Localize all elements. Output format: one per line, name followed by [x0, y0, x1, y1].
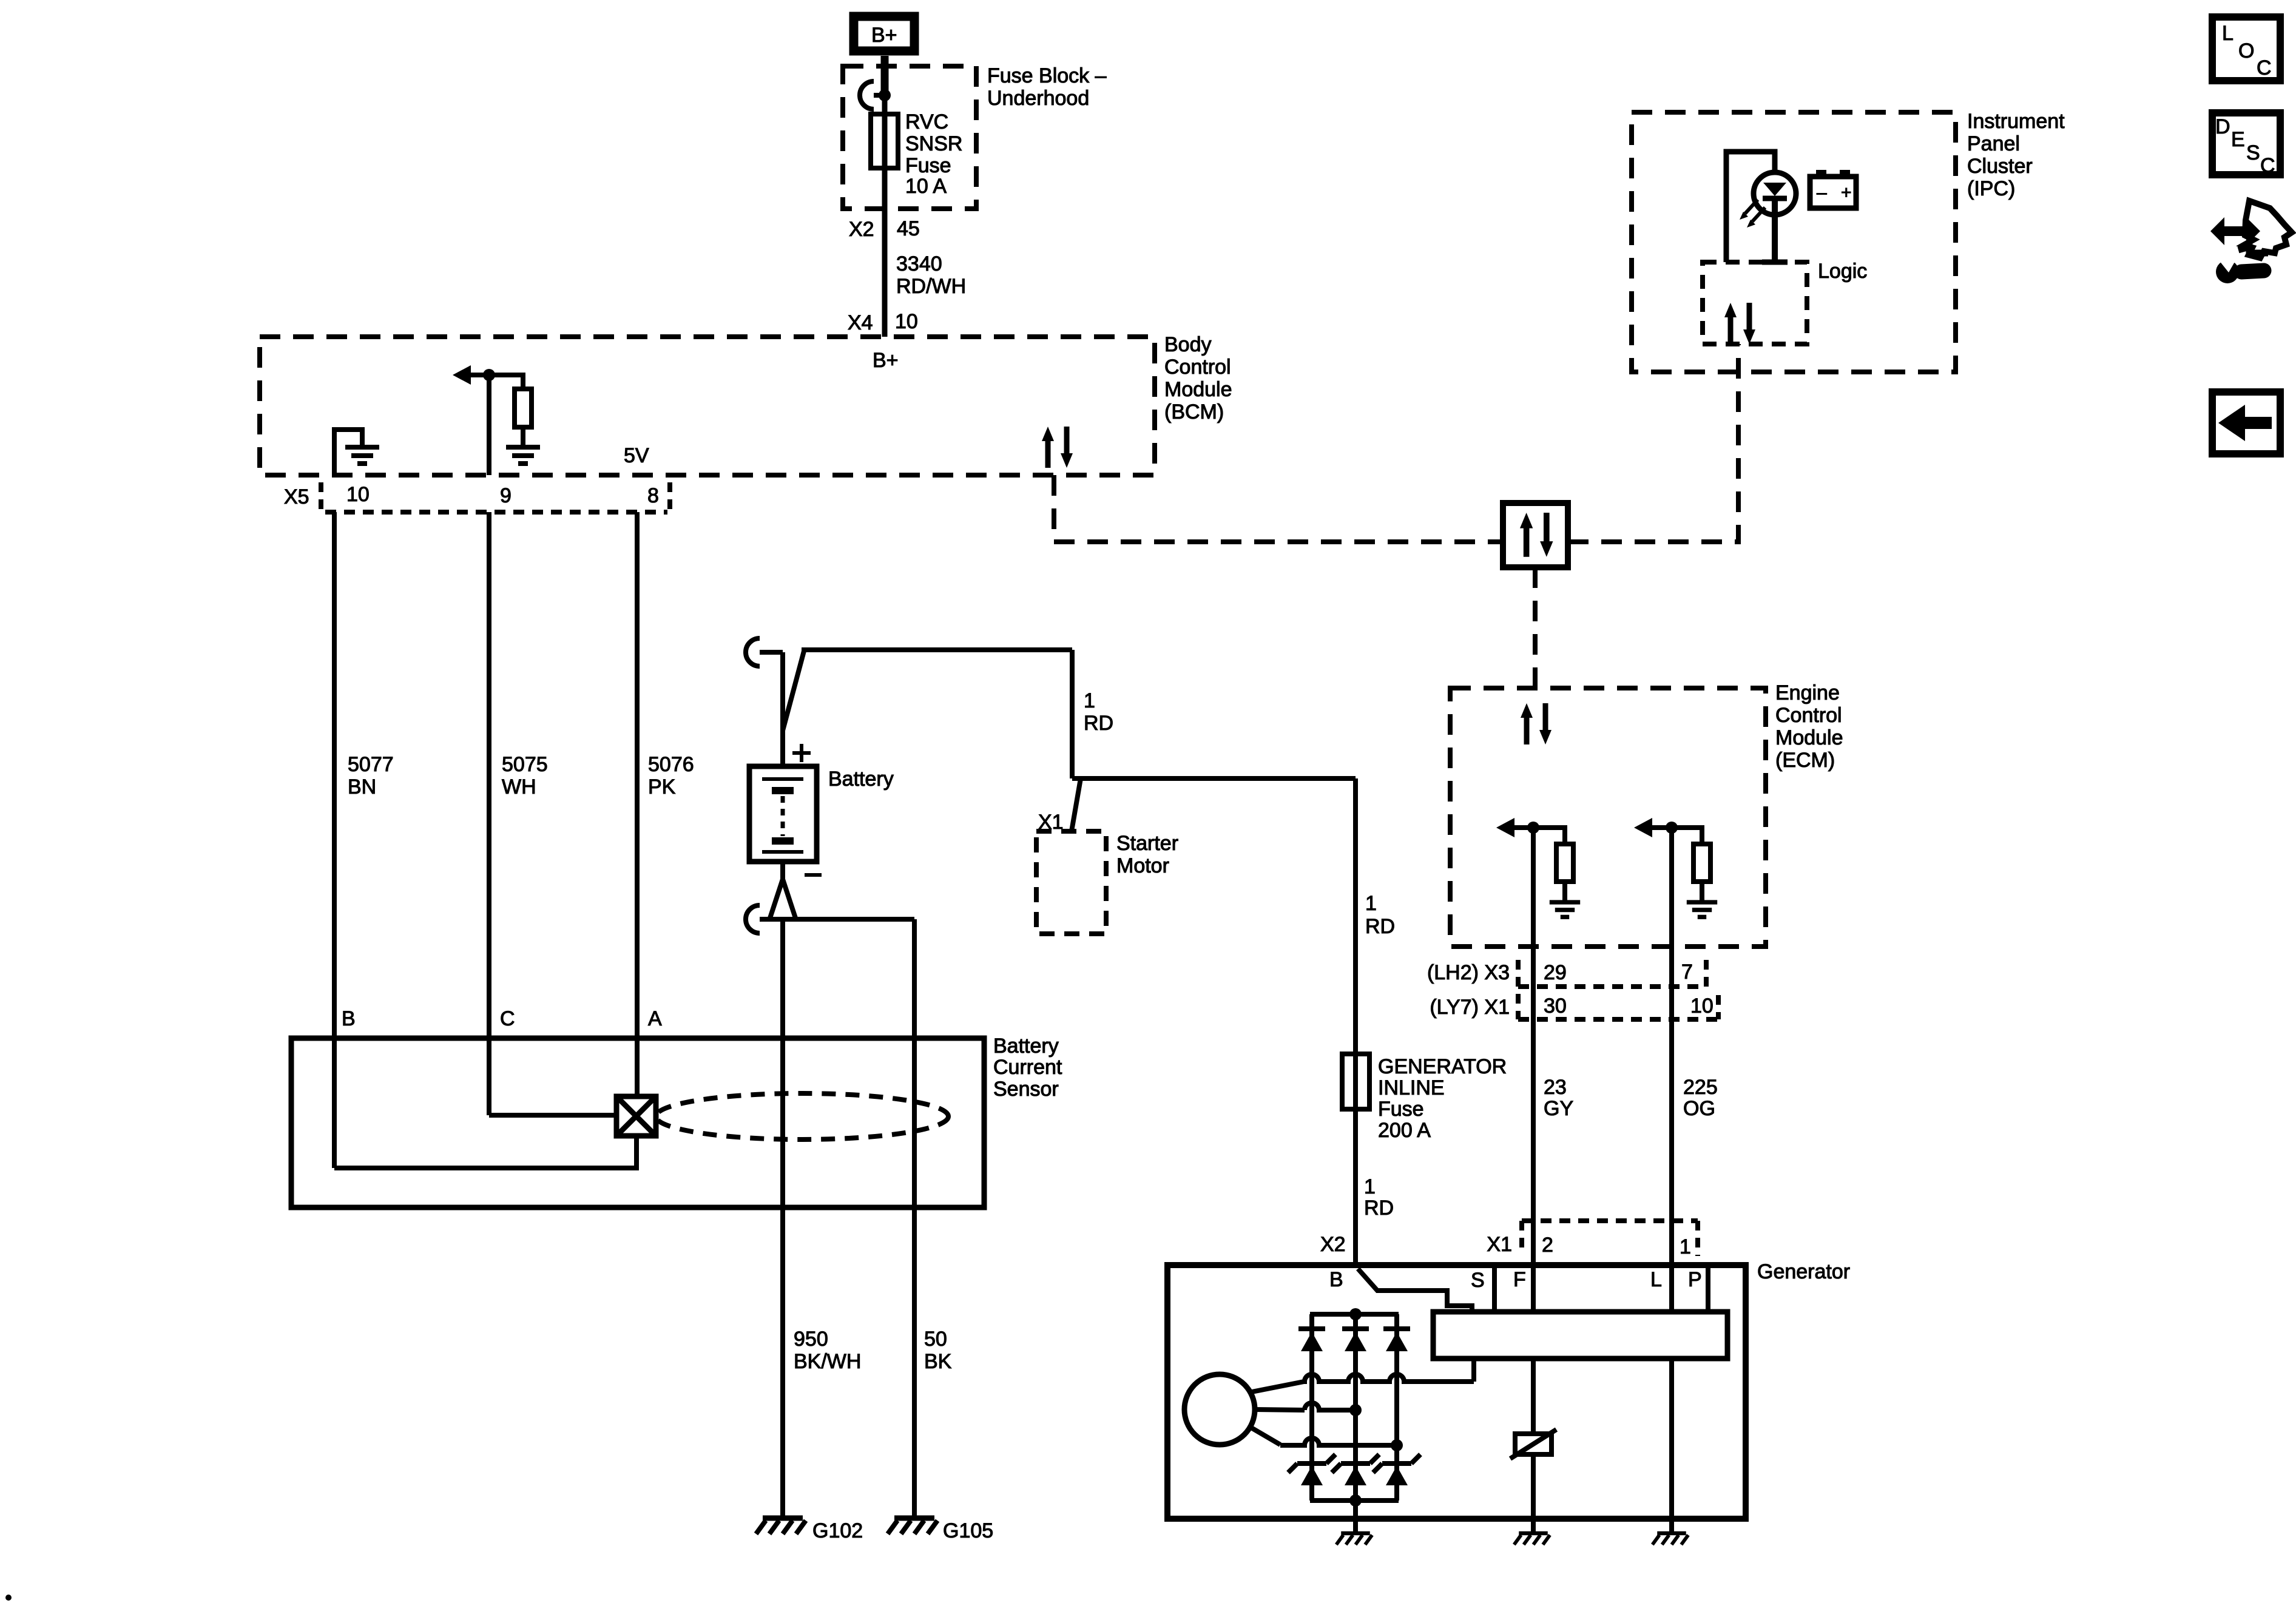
ECM serial arrows: [1521, 703, 1551, 744]
wire 23 GY to generator F: [1531, 828, 1536, 1314]
svg-text:SNSR: SNSR: [905, 132, 962, 155]
wire 50 BK to G105: [912, 919, 917, 1517]
svg-text:RD: RD: [1084, 712, 1113, 735]
diode 1: [1298, 1329, 1325, 1351]
splice continuation hook: [874, 93, 885, 98]
svg-text:RD: RD: [1364, 1197, 1394, 1220]
svg-text:8: 8: [647, 484, 659, 507]
svg-text:X5: X5: [284, 485, 309, 508]
stray period artifact: [5, 1595, 12, 1601]
svg-text:RD: RD: [1365, 915, 1395, 938]
regulator sense step: [1471, 1359, 1476, 1382]
svg-text:Module: Module: [1775, 726, 1843, 749]
svg-text:2: 2: [1542, 1234, 1553, 1257]
ground ECM left: [1550, 902, 1580, 917]
zener diode 2: [1332, 1454, 1379, 1485]
svg-text:O: O: [2238, 39, 2254, 62]
LOC icon: [2212, 17, 2280, 81]
generator case ground B: [1353, 1501, 1358, 1531]
svg-text:RVC: RVC: [905, 110, 948, 133]
generator box: [1167, 1265, 1746, 1519]
fuse block underhood dashed box: [843, 66, 976, 209]
svg-text:GY: GY: [1544, 1097, 1573, 1120]
svg-text:1: 1: [1365, 892, 1377, 915]
svg-text:D: D: [2215, 115, 2230, 138]
svg-text:S: S: [2246, 141, 2260, 164]
svg-text:BN: BN: [348, 775, 376, 798]
node stator phase 2 junction: [1349, 1404, 1362, 1416]
ground (BCM pin 10): [345, 447, 379, 464]
svg-text:G105: G105: [943, 1519, 993, 1542]
svg-text:(LH2) X3: (LH2) X3: [1427, 961, 1510, 984]
zener diode 3: [1373, 1454, 1420, 1485]
svg-text:B+: B+: [871, 24, 897, 47]
stator phase 1 winding: [1304, 1374, 1474, 1382]
svg-text:Engine: Engine: [1775, 681, 1840, 704]
battery: [749, 766, 817, 862]
svg-text:Starter: Starter: [1116, 832, 1178, 855]
wire 1 RD generator feed: [1353, 778, 1358, 1266]
rectifier top rail: [1310, 1312, 1399, 1317]
svg-text:OG: OG: [1683, 1097, 1715, 1120]
svg-text:950: 950: [794, 1328, 828, 1351]
wire 5075 WH: [487, 512, 491, 1115]
svg-text:5077: 5077: [348, 753, 394, 776]
svg-text:30: 30: [1544, 994, 1567, 1018]
svg-text:Control: Control: [1164, 356, 1231, 379]
rectifier bottom rail: [1310, 1498, 1399, 1503]
svg-text:GENERATOR: GENERATOR: [1378, 1055, 1507, 1078]
svg-text:Fuse: Fuse: [905, 154, 951, 177]
wire B+ feed into fuse block: [882, 56, 888, 337]
svg-text:1: 1: [1364, 1175, 1376, 1198]
junction node: [879, 89, 891, 101]
svg-text:BK: BK: [924, 1350, 952, 1373]
negative bus wire: [760, 917, 914, 922]
svg-text:X4: X4: [848, 311, 873, 334]
svg-text:7: 7: [1681, 960, 1693, 984]
wire 225 OG to generator L: [1669, 828, 1674, 1314]
diode 3: [1383, 1329, 1410, 1351]
svg-text:225: 225: [1683, 1076, 1718, 1099]
svg-text:Fuse Block –: Fuse Block –: [987, 64, 1107, 87]
svg-text:Panel: Panel: [1967, 132, 2020, 155]
svg-text:Battery: Battery: [993, 1035, 1059, 1058]
continuation hook battery positive: [746, 638, 760, 666]
body control module BCM dashed box: [260, 337, 1155, 475]
svg-text:(IPC): (IPC): [1967, 177, 2015, 200]
B+ power terminal box: [854, 16, 914, 51]
svg-text:(BCM): (BCM): [1164, 400, 1224, 424]
BCM internal ground pin 10: [334, 430, 362, 475]
resistor (BCM pull-up): [515, 389, 532, 427]
svg-text:A: A: [648, 1007, 662, 1030]
voltage regulator: [1433, 1312, 1727, 1359]
back arrow icon: [2212, 392, 2280, 454]
serial data wire BCM to gateway: [1054, 475, 1503, 542]
svg-text:10: 10: [1690, 994, 1714, 1018]
wire to generator B: [1072, 776, 1356, 781]
DESC icon: [2212, 113, 2280, 175]
serial data wire gateway to IPC: [1568, 344, 1738, 542]
IPC battery icon: [1810, 177, 1856, 208]
generator X1 connector pins 2 1: [1522, 1218, 1698, 1223]
battery negative splice: [780, 862, 785, 879]
svg-text:PK: PK: [648, 775, 676, 798]
wire stub to starter motor: [1072, 778, 1081, 831]
svg-text:Instrument: Instrument: [1967, 110, 2065, 133]
svg-text:Motor: Motor: [1116, 854, 1169, 877]
sensor loop dashed ellipse: [656, 1093, 948, 1139]
flipbook hand tool icon: [2210, 201, 2292, 283]
charge indicator LED: [1754, 172, 1796, 215]
svg-text:B: B: [342, 1007, 356, 1030]
svg-text:WH: WH: [502, 775, 536, 798]
svg-text:9: 9: [500, 484, 512, 507]
serial data gateway symbol: [1503, 503, 1568, 567]
plus label: [792, 751, 811, 755]
svg-text:B+: B+: [873, 349, 899, 372]
battery positive wire: [780, 652, 785, 766]
wire resistor to ground: [521, 427, 525, 445]
ground G105: [888, 1518, 937, 1534]
indicator lamp circuit loop: [1726, 152, 1775, 262]
svg-text:L: L: [2222, 22, 2234, 45]
svg-text:1: 1: [1680, 1235, 1691, 1258]
field driver symbol: [1531, 1359, 1536, 1434]
ECM field control signal arrow: [1502, 825, 1533, 830]
node bottom rail junction: [1349, 1494, 1362, 1507]
continuation hook battery negative: [746, 905, 760, 933]
svg-text:Generator: Generator: [1757, 1260, 1850, 1283]
svg-text:Control: Control: [1775, 704, 1842, 727]
svg-text:(LY7) X1: (LY7) X1: [1430, 996, 1510, 1019]
L terminal wire through regulator: [1669, 1359, 1674, 1531]
stator phase 2 winding: [1305, 1403, 1356, 1410]
svg-text:10: 10: [895, 310, 918, 333]
zener diode 1: [1288, 1454, 1335, 1485]
rectifier legs: [1309, 1314, 1314, 1501]
svg-text:C: C: [2260, 154, 2275, 177]
fuse RVC SNSR 10A: [871, 114, 898, 168]
svg-text:G102: G102: [812, 1519, 863, 1542]
battery current sensor box: [291, 1038, 984, 1207]
svg-text:X2: X2: [849, 218, 874, 241]
svg-text:(ECM): (ECM): [1775, 749, 1835, 772]
node ECM field junction: [1527, 822, 1539, 834]
ground ECM right: [1687, 902, 1717, 917]
svg-text:5075: 5075: [502, 753, 548, 776]
generator case ground L: [1652, 1533, 1688, 1545]
svg-text:5076: 5076: [648, 753, 694, 776]
terminal P divider: [1706, 1265, 1710, 1314]
svg-text:B: B: [1329, 1268, 1343, 1291]
diode 2: [1342, 1329, 1369, 1351]
svg-text:X1: X1: [1487, 1233, 1512, 1256]
svg-text:INLINE: INLINE: [1378, 1076, 1445, 1099]
resistor ECM left: [1556, 844, 1573, 882]
ECM lamp control signal arrow: [1639, 825, 1672, 830]
wire to ECM pull-down resistor: [1533, 828, 1565, 844]
resistor ECM right: [1693, 844, 1710, 882]
svg-text:50: 50: [924, 1328, 947, 1351]
svg-text:Fuse: Fuse: [1378, 1098, 1424, 1121]
starter motor dashed box: [1036, 831, 1106, 934]
svg-text:Module: Module: [1164, 378, 1232, 401]
wire 5076 PK: [635, 512, 640, 1096]
svg-text:S: S: [1471, 1269, 1485, 1292]
wire starter feed down: [1070, 650, 1075, 778]
svg-text:1: 1: [1084, 689, 1095, 712]
svg-text:23: 23: [1544, 1076, 1567, 1099]
svg-text:P: P: [1688, 1268, 1702, 1291]
svg-text:X2: X2: [1320, 1233, 1346, 1256]
svg-text:C: C: [500, 1007, 515, 1030]
svg-text:L: L: [1650, 1268, 1662, 1291]
svg-text:Sensor: Sensor: [993, 1078, 1059, 1101]
svg-text:200 A: 200 A: [1378, 1119, 1431, 1142]
node ECM lamp junction: [1666, 822, 1678, 834]
sensor internal wiring: [334, 1136, 636, 1168]
wire 950 BK/WH to G102: [780, 919, 785, 1517]
logic dashed box: [1703, 262, 1807, 344]
serial data wire gateway to ECM: [1533, 567, 1538, 688]
svg-text:3340: 3340: [896, 252, 942, 275]
LED light arrows: [1745, 200, 1758, 214]
wire battery positive tap to starter feed: [783, 651, 804, 731]
svg-text:Underhood: Underhood: [987, 87, 1089, 110]
svg-text:–: –: [1817, 183, 1827, 203]
engine control module ECM dashed box: [1450, 688, 1766, 947]
svg-text:Logic: Logic: [1818, 260, 1867, 283]
svg-text:29: 29: [1544, 961, 1567, 984]
B to S sense link: [1358, 1269, 1472, 1314]
wire BCM pin 9 internal: [487, 375, 491, 475]
node stator phase 3 junction: [1391, 1439, 1403, 1451]
svg-text:E: E: [2231, 128, 2245, 151]
wire to ECM lamp resistor: [1672, 828, 1702, 844]
instrument panel cluster IPC dashed box: [1632, 112, 1956, 372]
svg-text:Battery: Battery: [828, 768, 894, 791]
terminal S divider: [1492, 1265, 1497, 1314]
svg-text:Cluster: Cluster: [1967, 155, 2033, 178]
node (BCM pin 9 junction): [483, 369, 495, 381]
rotor field winding: [1184, 1374, 1255, 1445]
svg-text:Body: Body: [1164, 333, 1212, 356]
BCM serial data arrows: [1042, 427, 1073, 468]
svg-text:BK/WH: BK/WH: [794, 1350, 861, 1373]
svg-text:10 A: 10 A: [905, 175, 947, 198]
svg-text:45: 45: [897, 217, 920, 240]
svg-text:+: +: [1841, 183, 1852, 203]
BCM internal sense: arrow out: [470, 373, 489, 377]
svg-text:C: C: [2257, 56, 2272, 79]
svg-text:Current: Current: [993, 1056, 1062, 1079]
wire 5077 BN: [332, 512, 337, 1168]
svg-text:5V: 5V: [624, 444, 649, 467]
ground G102: [756, 1518, 806, 1534]
hall sensor element X box: [616, 1096, 656, 1136]
wire to internal resistor: [489, 375, 523, 389]
generator case ground F: [1514, 1533, 1550, 1545]
ground (BCM internal): [506, 447, 540, 464]
stator phase 3 winding: [1280, 1438, 1397, 1445]
svg-text:10: 10: [346, 483, 370, 506]
logic serial arrows: [1724, 303, 1755, 344]
generator inline fuse 200A: [1342, 1054, 1369, 1109]
node B rail junction: [1349, 1308, 1362, 1320]
svg-text:F: F: [1513, 1268, 1526, 1291]
svg-text:RD/WH: RD/WH: [896, 275, 966, 298]
